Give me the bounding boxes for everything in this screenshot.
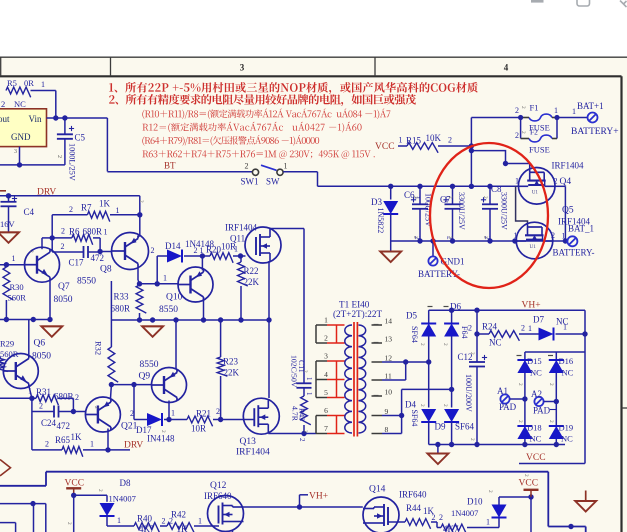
svg-text:2: 2 <box>523 474 529 477</box>
svg-text:R15: R15 <box>406 136 422 146</box>
svg-text:2: 2 <box>520 106 526 109</box>
svg-text:4: 4 <box>324 370 328 379</box>
svg-text:F2: F2 <box>530 128 538 137</box>
svg-text:10R: 10R <box>191 424 206 434</box>
wire Q9 collector up <box>175 320 177 370</box>
svg-text:NC: NC <box>489 338 502 348</box>
svg-text:Q7: Q7 <box>58 282 70 292</box>
svg-text:8050: 8050 <box>54 295 73 305</box>
svg-text:1: 1 <box>514 231 518 240</box>
svg-text:2: 2 <box>66 522 72 525</box>
wire Q10 base net <box>137 274 178 287</box>
diode D8 1N4007 <box>100 478 136 526</box>
svg-text:8550: 8550 <box>159 305 178 315</box>
resistor R32 <box>94 320 119 387</box>
svg-text:2: 2 <box>162 517 166 526</box>
svg-text:2: 2 <box>419 404 425 407</box>
svg-text:SW: SW <box>266 177 280 187</box>
svg-text:D14: D14 <box>165 241 181 251</box>
svg-text:680R: 680R <box>54 392 74 402</box>
svg-text:D10: D10 <box>467 497 483 507</box>
svg-text:R5: R5 <box>7 78 17 88</box>
wire DRV vertical to Q8 emitter <box>137 212 142 237</box>
svg-text:8550: 8550 <box>140 360 159 370</box>
wire T1 pin9 to rectifier <box>382 387 454 434</box>
svg-text:PAD: PAD <box>499 402 517 412</box>
svg-text:2: 2 <box>412 196 418 199</box>
svg-text:Q13: Q13 <box>240 437 257 447</box>
diode D19 NC <box>549 423 573 444</box>
svg-text:2: 2 <box>442 404 448 407</box>
svg-text:560R: 560R <box>0 349 19 359</box>
wire rectifier bottom rail <box>429 442 565 447</box>
svg-text:1: 1 <box>116 206 120 215</box>
svg-text:U1: U1 <box>530 244 537 250</box>
svg-text:3300U/25V: 3300U/25V <box>500 192 509 230</box>
wire Q4 source bracket to Q5 drain <box>516 186 528 223</box>
svg-text:C4: C4 <box>24 207 35 217</box>
port BATTERY- right <box>553 236 595 257</box>
wire R21 to Q13 gate <box>221 419 255 421</box>
wire Q7 base <box>0 254 25 267</box>
svg-text:1: 1 <box>562 232 566 241</box>
svg-text:22K: 22K <box>224 368 240 378</box>
svg-text:D9: D9 <box>435 422 446 432</box>
resistor R6 680R <box>52 227 107 245</box>
resistor R31 680R <box>32 387 79 412</box>
svg-text:2: 2 <box>447 236 453 239</box>
wire Q4 drain staircase <box>471 151 529 169</box>
svg-text:2: 2 <box>554 177 558 186</box>
mosfet Q13 IRF1404 <box>236 398 279 457</box>
svg-text:1: 1 <box>324 316 328 325</box>
svg-text:Q8: Q8 <box>100 265 112 275</box>
fuse F1 FUSE <box>515 103 558 133</box>
svg-text:2: 2 <box>56 155 62 158</box>
svg-text:NC: NC <box>530 368 542 378</box>
svg-text:VH+: VH+ <box>309 492 328 502</box>
svg-text:Q9: Q9 <box>139 372 151 382</box>
svg-text:2: 2 <box>138 200 144 203</box>
fuse F2 FUSE <box>515 115 560 155</box>
svg-text:6: 6 <box>324 406 328 415</box>
svg-text:D4: D4 <box>405 400 416 410</box>
svg-text:4: 4 <box>504 63 509 73</box>
wire caps bottom rail <box>391 238 568 243</box>
resistor R43 4.7R <box>291 396 311 442</box>
svg-text:1K: 1K <box>99 199 111 209</box>
svg-text:2: 2 <box>245 162 249 171</box>
svg-text:2: 2 <box>75 393 79 402</box>
svg-text:R6: R6 <box>69 227 80 237</box>
svg-text:(2T+2T):22T: (2T+2T):22T <box>333 309 382 319</box>
svg-text:IRF640: IRF640 <box>399 490 427 500</box>
svg-text:D6: D6 <box>450 302 461 312</box>
svg-text:R23: R23 <box>223 357 239 367</box>
transistor Q7 8050 <box>25 247 73 305</box>
wire Q11 drain node <box>270 228 304 231</box>
svg-text:2: 2 <box>69 205 73 214</box>
wire bridge left column <box>522 352 527 447</box>
wire Vin node down to BT <box>106 118 108 172</box>
svg-text:BATTERY-: BATTERY- <box>553 248 595 258</box>
svg-text:D7: D7 <box>533 315 544 325</box>
svg-text:1: 1 <box>104 228 108 237</box>
svg-text:D3: D3 <box>371 197 382 207</box>
svg-text:2: 2 <box>517 383 523 386</box>
resistor R29 560R <box>0 339 19 372</box>
svg-text:2: 2 <box>447 196 453 199</box>
svg-text:2: 2 <box>97 489 103 492</box>
svg-text:1: 1 <box>572 107 576 116</box>
svg-text:PAD: PAD <box>533 406 551 416</box>
capacitor C4 16V <box>0 196 35 233</box>
wire Q21 collector <box>110 385 113 399</box>
wire D17 feed vertical <box>130 385 147 420</box>
resistor R15 10K <box>398 133 474 153</box>
diode D5 SF64 <box>406 310 436 407</box>
svg-text:2: 2 <box>324 334 328 343</box>
svg-text:2: 2 <box>61 227 65 236</box>
wire Q6 collector <box>28 320 30 357</box>
red note annotations (Chinese) <box>109 82 478 159</box>
resistor R65 1K <box>32 412 130 457</box>
svg-text:1: 1 <box>28 387 32 396</box>
svg-text:2: 2 <box>517 420 523 423</box>
transistor Q10 8550 <box>159 267 213 315</box>
capacitor C5 1000L/25V <box>57 118 86 181</box>
svg-text:Q14: Q14 <box>369 485 386 495</box>
svg-text:R43: R43 <box>298 408 307 421</box>
wire D14 to R20 <box>184 253 210 258</box>
svg-text:IN4148: IN4148 <box>147 434 175 444</box>
ground under D3 <box>380 241 401 262</box>
port A2 PAD <box>531 389 556 416</box>
svg-text:R20: R20 <box>206 245 222 255</box>
svg-text:2: 2 <box>194 246 198 255</box>
wire VH+ rail <box>429 308 588 464</box>
svg-text:2: 2 <box>482 236 488 239</box>
svg-text:D16: D16 <box>559 356 574 366</box>
svg-text:Q5: Q5 <box>562 206 574 216</box>
wire gnd rail under U2 <box>0 162 65 167</box>
svg-text:1: 1 <box>171 409 175 418</box>
wire Q4 pin2 to battery-negative <box>555 186 565 241</box>
svg-text:BAT+1: BAT+1 <box>577 101 604 111</box>
capacitor C8 3300U/25V <box>481 184 509 241</box>
svg-text:2: 2 <box>468 324 472 333</box>
wire U2 Vin rail <box>47 115 108 120</box>
wire fuse feed vertical <box>469 118 521 187</box>
svg-text:2: 2 <box>448 135 452 144</box>
wire T1 pin8 link <box>382 433 402 435</box>
port BAT+1 BATTERY+ <box>557 101 619 137</box>
svg-text:VCC: VCC <box>65 479 85 489</box>
port A1 PAD <box>497 386 525 412</box>
transformer T1 primary red links <box>327 325 345 434</box>
net label BT <box>164 161 176 171</box>
svg-text:2: 2 <box>515 106 519 115</box>
svg-text:2: 2 <box>302 430 308 433</box>
svg-text:C17: C17 <box>69 258 85 268</box>
svg-text:13: 13 <box>385 335 393 344</box>
svg-text:1: 1 <box>90 440 94 449</box>
svg-text:2: 2 <box>151 246 155 255</box>
svg-text:4K7: 4K7 <box>443 524 459 532</box>
svg-text:4K7: 4K7 <box>139 524 155 532</box>
net label DRV <box>0 188 56 198</box>
svg-text:2: 2 <box>93 406 99 409</box>
svg-text:T1 EI40: T1 EI40 <box>339 300 370 310</box>
net label VCC lower-left <box>65 479 85 489</box>
svg-text:2: 2 <box>469 438 475 441</box>
svg-text:BT: BT <box>164 161 176 171</box>
svg-text:IRF1404: IRF1404 <box>552 161 585 171</box>
diode D3 1N5822 <box>371 186 398 241</box>
svg-text:1: 1 <box>198 517 202 526</box>
lower block border <box>0 472 586 532</box>
upper block border bottom-right <box>519 463 585 465</box>
capacitor C7 3300U/25V <box>440 186 466 241</box>
svg-text:9: 9 <box>385 407 389 416</box>
svg-text:R7: R7 <box>81 203 92 213</box>
svg-text:F1: F1 <box>530 103 539 113</box>
svg-text:R29: R29 <box>0 339 14 349</box>
transformer T1 secondary pin stubs <box>372 317 393 435</box>
svg-text:2: 2 <box>515 131 519 140</box>
svg-text:22K: 22K <box>244 277 260 287</box>
svg-text:2: 2 <box>130 409 134 418</box>
capacitor C11 102C/50V <box>290 229 314 397</box>
svg-text:D15: D15 <box>527 356 542 366</box>
svg-text:D5: D5 <box>406 311 417 321</box>
svg-text:SW1: SW1 <box>241 177 259 187</box>
svg-text:NC: NC <box>562 368 574 378</box>
resistor R22 22K <box>238 256 260 320</box>
svg-text:A1: A1 <box>497 386 508 396</box>
wire Q14 source down <box>373 531 375 532</box>
power bar VCC lower-left <box>66 488 81 498</box>
net label VCC lower-right <box>519 479 539 489</box>
svg-text:2: 2 <box>419 343 425 346</box>
svg-text:1: 1 <box>284 162 288 171</box>
net label DRV lower <box>124 441 143 451</box>
wire bridge right column <box>554 352 559 447</box>
red highlight ellipse <box>430 143 548 288</box>
svg-text:2: 2 <box>45 440 49 449</box>
transformer T1 EI40 labels <box>333 300 382 320</box>
transformer T1 secondary winding <box>359 325 366 433</box>
pin marks (small) <box>28 106 554 525</box>
svg-text:2: 2 <box>216 407 220 416</box>
svg-text:680R: 680R <box>111 304 131 314</box>
svg-text:2: 2 <box>302 370 308 373</box>
svg-text:R30: R30 <box>10 282 24 292</box>
wire Q8 collector node <box>138 267 140 284</box>
diode D10 1N4007 <box>451 497 507 528</box>
svg-text:1: 1 <box>515 177 519 186</box>
svg-text:R31: R31 <box>36 387 51 397</box>
svg-text:3300U/25V: 3300U/25V <box>457 192 466 230</box>
svg-text:472: 472 <box>91 253 105 263</box>
svg-text:2: 2 <box>482 196 488 199</box>
svg-text:IRF1404: IRF1404 <box>236 448 270 458</box>
resistor R5 0R <box>6 78 45 97</box>
wire T1 pin11 link <box>382 362 406 380</box>
svg-text:R65: R65 <box>55 435 71 445</box>
svg-text:R44: R44 <box>406 503 422 513</box>
svg-text:1: 1 <box>117 516 121 525</box>
svg-text:NC: NC <box>561 434 573 444</box>
svg-text:8050: 8050 <box>32 352 51 362</box>
diode D15 NC <box>517 356 543 378</box>
transistor Q9 8550 <box>139 360 187 403</box>
svg-text:2: 2 <box>487 490 493 493</box>
svg-text:NC: NC <box>530 434 542 444</box>
svg-text:1: 1 <box>41 80 45 89</box>
svg-text:D19: D19 <box>559 423 574 433</box>
svg-text:R40: R40 <box>137 514 153 524</box>
wire to Q21 base <box>73 411 85 413</box>
svg-text:2: 2 <box>469 352 475 355</box>
wire Q21 emitter to DRV2 <box>105 429 110 453</box>
svg-text:2: 2 <box>432 513 436 522</box>
svg-text:3: 3 <box>324 352 328 361</box>
ground under C4 <box>0 232 19 243</box>
svg-text:7: 7 <box>324 424 328 433</box>
svg-text:VCC: VCC <box>519 479 539 489</box>
transistor Q6 8050 <box>3 339 51 389</box>
transformer T1 core <box>354 322 357 437</box>
grid reference 4 <box>504 63 509 73</box>
wire SW to caps rail <box>283 172 317 187</box>
wire T1 pin12 to rectifier <box>382 359 431 364</box>
svg-text:2: 2 <box>39 402 43 411</box>
mosfet Q12 IRF640 <box>204 481 244 532</box>
ground left rail <box>41 320 62 337</box>
svg-text:2: 2 <box>1 99 5 109</box>
resistor R42 1K <box>167 510 219 532</box>
resistor R40 4K7 <box>107 514 173 532</box>
svg-text:R24: R24 <box>482 322 498 332</box>
net label VCC R15 <box>375 142 395 152</box>
resistor R33 680R <box>111 284 147 320</box>
wire R7-R6 junction vertical <box>50 215 55 252</box>
mosfet Q5 IRF1404 <box>514 206 595 259</box>
resistor R30 560R <box>3 267 26 320</box>
wire Q6 emitter node <box>0 386 35 401</box>
wire BT <box>107 171 252 173</box>
svg-text:D18: D18 <box>527 423 542 433</box>
svg-text:IRF640: IRF640 <box>204 491 232 501</box>
svg-text:Q6: Q6 <box>34 339 46 349</box>
svg-text:2: 2 <box>439 513 443 522</box>
svg-text:R22: R22 <box>244 266 259 276</box>
wire Q9 emitter down <box>166 401 171 423</box>
svg-text:2: 2 <box>298 438 306 442</box>
svg-text:BATTERY+: BATTERY+ <box>571 127 619 137</box>
transistor Q21 8550 <box>85 397 137 432</box>
capacitor C24 472 <box>32 398 76 431</box>
svg-text:VH+: VH+ <box>522 301 541 311</box>
resistor R44 1K <box>388 503 443 529</box>
diode D7 NC <box>528 315 585 341</box>
svg-text:1N5822: 1N5822 <box>376 208 385 234</box>
svg-text:GND: GND <box>11 132 31 142</box>
svg-text:C24: C24 <box>41 418 57 428</box>
resistor R21 10R <box>187 407 223 434</box>
svg-text:560R: 560R <box>8 293 27 303</box>
svg-text:12: 12 <box>385 354 393 363</box>
svg-text:DRV: DRV <box>124 441 143 451</box>
power bar VCC lower-right <box>524 490 539 497</box>
wire VCC node lower-left <box>74 495 107 532</box>
transformer T1 primary pin stubs and brackets <box>316 316 328 434</box>
svg-text:U1: U1 <box>532 189 539 195</box>
wire U2 GND pin <box>19 147 21 165</box>
svg-text:14: 14 <box>385 317 393 326</box>
capacitor C12 100U/200V <box>458 310 488 444</box>
wire caps top rail <box>318 184 520 189</box>
switch SW1 SW <box>241 162 288 187</box>
wire Q11 source to Q13 drain <box>268 261 270 398</box>
svg-text:2: 2 <box>551 231 555 240</box>
wire C17/R6 to Q8 base <box>97 238 111 254</box>
wire mid gnd rail <box>111 317 271 322</box>
diode D6 SF64 <box>428 302 470 408</box>
svg-text:1K: 1K <box>71 432 83 442</box>
svg-text:1: 1 <box>305 392 313 396</box>
svg-text:VCC: VCC <box>526 453 546 463</box>
svg-text:8: 8 <box>385 425 389 434</box>
svg-text:IRF1404: IRF1404 <box>225 223 258 233</box>
svg-text:1K: 1K <box>177 524 189 532</box>
svg-text:1: 1 <box>163 274 167 283</box>
svg-text:1: 1 <box>399 135 403 144</box>
svg-text:R33: R33 <box>114 292 130 302</box>
svg-text:680R: 680R <box>83 227 103 237</box>
diode D17 1N4148 <box>136 413 175 444</box>
wire D10 to VCC node <box>499 494 534 532</box>
svg-text:16V: 16V <box>0 219 16 229</box>
wire Q13 source to T1 pin7 <box>268 431 316 436</box>
wire Q9 base net <box>111 382 151 387</box>
svg-text:2: 2 <box>548 420 554 423</box>
resistor R24 NC <box>468 322 539 348</box>
resistor R23 22K <box>217 320 239 420</box>
svg-text:2: 2 <box>521 324 525 333</box>
regulator U2 (NC) <box>0 99 62 158</box>
wire Q10 collector up <box>201 256 203 270</box>
svg-text:2: 2 <box>160 430 166 433</box>
svg-text:Q11: Q11 <box>230 234 245 244</box>
svg-text:NC: NC <box>14 99 26 109</box>
svg-text:Q10: Q10 <box>166 293 183 303</box>
svg-text:1: 1 <box>554 106 558 115</box>
ground mid rail <box>142 326 163 337</box>
svg-text:3: 3 <box>240 63 245 73</box>
svg-text:Q12: Q12 <box>210 481 227 491</box>
transistor Q8 8550 <box>77 233 149 287</box>
port arrow left edge <box>0 460 11 476</box>
svg-text:472: 472 <box>57 421 71 431</box>
wire D14 anode feed <box>151 246 168 284</box>
svg-text:1N4007: 1N4007 <box>109 494 136 504</box>
svg-text:1000L/25V: 1000L/25V <box>68 143 77 181</box>
svg-text:3: 3 <box>14 149 17 155</box>
diode D9 SF64 <box>435 409 475 445</box>
svg-text:10: 10 <box>385 388 393 397</box>
